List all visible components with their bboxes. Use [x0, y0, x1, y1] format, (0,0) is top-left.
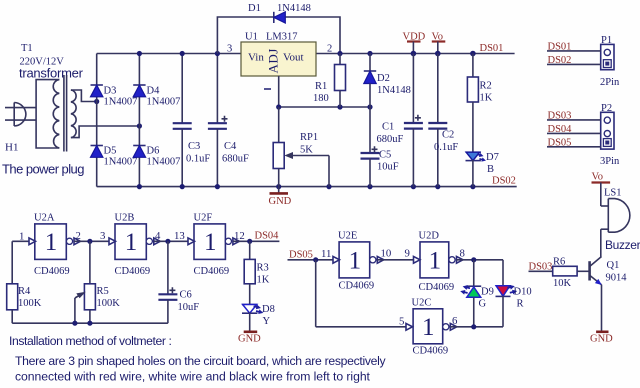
svg-text:10uF: 10uF: [377, 162, 399, 173]
svg-text:4: 4: [155, 230, 161, 242]
node: secondary top tap junction: [94, 99, 99, 104]
connector P2 3Pin: [600, 103, 620, 167]
node: rail-R1 junction: [337, 51, 342, 56]
svg-text:11: 11: [321, 248, 331, 260]
svg-text:10: 10: [381, 248, 392, 260]
svg-text:1K: 1K: [480, 93, 493, 104]
svg-text:R6: R6: [553, 257, 565, 268]
resistor R2 1K: [467, 54, 492, 153]
power Vo symbol (buzzer): [592, 172, 611, 207]
LED D9 green: [460, 260, 494, 327]
svg-text:D10: D10: [514, 287, 532, 298]
node: bottom rail / C5 junction: [367, 184, 372, 189]
resistor R3 1K: [244, 241, 270, 304]
wire: top rail right: [316, 53, 515, 55]
node: R1 bottom junction: [337, 104, 342, 109]
svg-text:R5: R5: [97, 286, 109, 297]
svg-text:1N4148: 1N4148: [277, 3, 311, 14]
svg-text:C1: C1: [382, 122, 394, 133]
node: bottom rail / C3 junction: [180, 184, 185, 189]
svg-text:CD4069: CD4069: [115, 266, 151, 277]
svg-text:DS01: DS01: [480, 43, 504, 54]
svg-text:H1: H1: [5, 142, 18, 154]
svg-text:12: 12: [234, 230, 245, 242]
svg-text:1N4007: 1N4007: [147, 157, 181, 168]
svg-text:connected with red wire, white: connected with red wire, white wire and …: [15, 370, 371, 384]
diode D2 1N4148: [364, 54, 411, 108]
power Vo symbol: [432, 32, 446, 54]
wire: bridge right vertical: [138, 54, 140, 187]
wire: bridge left vertical: [96, 54, 98, 187]
svg-text:R: R: [517, 299, 524, 310]
wire: U2F out / DS04: [233, 230, 280, 242]
svg-text:DS05: DS05: [289, 250, 313, 261]
svg-text:U2F: U2F: [194, 213, 213, 224]
potentiometer RP1 5K: [273, 107, 329, 187]
svg-text:680uF: 680uF: [222, 154, 249, 165]
inverter U2F CD4069: [188, 213, 239, 278]
capacitor C6 10uF: [158, 241, 199, 323]
svg-text:1: 1: [45, 229, 58, 256]
svg-text:R4: R4: [18, 286, 31, 297]
net label DS02 (P1): [547, 55, 601, 66]
svg-text:D5: D5: [104, 146, 117, 157]
resistor R1 180: [313, 54, 346, 108]
node: DS05 junction: [313, 257, 318, 262]
svg-text:13: 13: [174, 230, 185, 242]
node: rail-C3 junction: [180, 51, 185, 56]
svg-text:10K: 10K: [553, 278, 572, 289]
node: rail-C4-D1 junction: [215, 51, 220, 56]
node: D9 bottom junction: [471, 324, 476, 329]
svg-text:1N4007: 1N4007: [104, 97, 138, 108]
capacitor C3 0.1uF: [173, 54, 211, 187]
LED D10 red: [496, 260, 532, 327]
svg-text:D6: D6: [147, 146, 160, 157]
svg-text:The power plug: The power plug: [2, 162, 84, 177]
potentiometer R5 100K: [75, 241, 120, 323]
svg-text:1: 1: [349, 247, 362, 274]
svg-text:D7: D7: [486, 152, 499, 163]
svg-text:LM317: LM317: [266, 32, 298, 43]
wire: U2A input and left vertical: [12, 231, 29, 284]
node: rail-D2 junction: [367, 51, 372, 56]
svg-text:T1: T1: [21, 43, 33, 54]
svg-text:RP1: RP1: [300, 132, 318, 143]
node: rail-bridge-right junction: [137, 51, 142, 56]
svg-text:CD4069: CD4069: [339, 281, 375, 292]
LED D8 yellow: [242, 304, 275, 332]
net label DS03 (P2): [547, 111, 601, 122]
svg-text:C3: C3: [188, 141, 200, 152]
node: C6 top junction: [165, 239, 170, 244]
svg-text:D9: D9: [481, 287, 494, 298]
svg-text:6: 6: [452, 315, 458, 327]
op-amp U1 LM317 regulator: [227, 32, 332, 77]
diode D4 1N4007: [133, 85, 180, 108]
svg-text:9014: 9014: [606, 273, 628, 284]
node: bottom rail / wiper return junction: [326, 184, 331, 189]
ground GND (D8): [238, 332, 261, 345]
capacitor C2 0.1uF: [428, 54, 458, 187]
svg-text:1: 1: [204, 229, 217, 256]
svg-text:180: 180: [313, 93, 329, 104]
wire: U2A out to U2B in: [74, 230, 109, 242]
svg-text:D3: D3: [104, 86, 117, 97]
svg-text:1N4007: 1N4007: [147, 97, 181, 108]
svg-text:1: 1: [125, 229, 138, 256]
svg-text:0.1uF: 0.1uF: [434, 142, 458, 153]
inverter U2C CD4069: [406, 298, 457, 357]
node: secondary bottom tap junction: [137, 123, 142, 128]
svg-text:B: B: [487, 164, 494, 175]
svg-text:9: 9: [405, 248, 410, 260]
svg-text:DS04: DS04: [255, 231, 280, 242]
svg-text:100K: 100K: [97, 298, 121, 309]
svg-text:R3: R3: [257, 263, 269, 274]
inverter U2A CD4069: [29, 213, 81, 278]
node: R5 bottom junction: [87, 321, 92, 326]
svg-text:GND: GND: [269, 196, 292, 207]
svg-text:680uF: 680uF: [377, 134, 404, 145]
svg-text:U2B: U2B: [115, 213, 135, 224]
svg-text:C6: C6: [180, 290, 192, 301]
svg-text:DS02: DS02: [492, 176, 516, 187]
svg-text:1: 1: [19, 231, 24, 243]
ground GND (Q1): [590, 332, 613, 345]
svg-text:1: 1: [429, 247, 442, 274]
svg-text:GND: GND: [590, 334, 613, 345]
svg-text:D1: D1: [248, 3, 261, 14]
node: ADJ junction: [276, 104, 281, 109]
svg-text:10uF: 10uF: [178, 302, 200, 313]
svg-text:3Pin: 3Pin: [600, 156, 620, 167]
inverter U2E CD4069: [333, 231, 384, 292]
svg-text:1N4007: 1N4007: [104, 157, 138, 168]
svg-text:1K: 1K: [257, 275, 270, 286]
node: D9 top junction: [471, 257, 476, 262]
node: bottom rail / D7 junction: [470, 184, 475, 189]
svg-text:2: 2: [76, 230, 81, 242]
svg-text:U2C: U2C: [412, 298, 432, 309]
node: rail-R2 junction: [470, 51, 476, 57]
transistor Q1 9014: [590, 257, 628, 332]
svg-text:100K: 100K: [18, 298, 42, 309]
svg-text:D2: D2: [377, 73, 390, 84]
net label DS05 (U2E): [288, 248, 334, 261]
power plug H1: [2, 103, 84, 177]
inverter U2B CD4069: [109, 213, 160, 278]
svg-text:1N4148: 1N4148: [377, 85, 411, 96]
capacitor C4 680uF: [208, 54, 249, 187]
svg-text:CD4069: CD4069: [419, 282, 455, 293]
net label DS05 (P2): [547, 137, 601, 148]
svg-text:2Pin: 2Pin: [600, 77, 620, 88]
wire: top rail left: [97, 53, 241, 55]
svg-text:2: 2: [327, 44, 332, 55]
node: R3 top junction: [247, 239, 252, 244]
diode D3 1N4007: [91, 85, 138, 108]
node: bottom rail / C1 junction: [411, 184, 416, 189]
svg-text:R1: R1: [315, 81, 327, 92]
svg-text:G: G: [479, 299, 487, 310]
wire: DS05 branch to U2C: [316, 260, 406, 328]
node: bottom rail / RP1-GND junction: [276, 184, 281, 189]
svg-text:R2: R2: [480, 81, 492, 92]
diode D1 1N4148: [217, 3, 340, 54]
svg-text:C2: C2: [442, 130, 454, 141]
wire: ADJ pin net: [264, 76, 370, 107]
svg-text:Buzzer: Buzzer: [605, 238, 640, 252]
svg-text:3: 3: [100, 230, 105, 242]
net label DS04 (P2): [547, 124, 601, 135]
diode D5 1N4007: [91, 146, 138, 168]
capacitor C5 10uF: [361, 107, 399, 187]
svg-text:CD4069: CD4069: [34, 266, 70, 277]
svg-text:D4: D4: [147, 86, 161, 97]
svg-text:GND: GND: [238, 334, 261, 345]
wire: bottom rail: [97, 186, 517, 188]
svg-text:C4: C4: [224, 141, 237, 152]
wire: oscillator bottom return: [12, 322, 168, 324]
svg-text:8: 8: [460, 248, 465, 260]
node: rail-VDD-C1 junction: [411, 51, 417, 57]
svg-text:Y: Y: [263, 316, 271, 327]
svg-text:Vout: Vout: [283, 52, 304, 64]
svg-text:Q1: Q1: [607, 260, 620, 271]
inverter U2D CD4069: [414, 231, 464, 294]
node: D2 bottom junction: [367, 104, 372, 109]
svg-text:3: 3: [227, 44, 232, 55]
svg-text:CD4069: CD4069: [194, 266, 230, 277]
svg-text:5: 5: [399, 316, 404, 328]
node: bottom rail / C2 junction: [435, 184, 440, 189]
svg-text:Vin: Vin: [248, 52, 264, 64]
wire: U2D out (pin 8) to LEDs: [457, 248, 504, 260]
svg-text:Vo: Vo: [592, 172, 603, 183]
wire: U2C out (pin 6) to LEDs bottom: [450, 315, 503, 327]
wire: U2B out to U2F in: [154, 230, 188, 242]
resistor R6 10K: [529, 257, 589, 290]
svg-text:1: 1: [422, 314, 435, 341]
LED D7 blue: [466, 152, 499, 187]
connector P1 2Pin: [600, 35, 620, 88]
svg-text:ADJ: ADJ: [266, 48, 281, 73]
svg-text:U2A: U2A: [34, 213, 55, 224]
node: wiper return junction: [72, 321, 77, 326]
net label DS01 (P1): [547, 42, 601, 53]
node: R5 top junction: [87, 239, 92, 244]
svg-text:U2E: U2E: [338, 231, 357, 242]
resistor R4 100K: [7, 284, 42, 323]
node: bottom rail / bridge right junction: [137, 184, 142, 189]
capacitor C1 680uF: [377, 54, 423, 187]
svg-text:U1: U1: [245, 32, 258, 43]
svg-text:LS1: LS1: [604, 188, 622, 199]
power VDD symbol: [403, 32, 426, 54]
svg-text:D8: D8: [262, 304, 275, 315]
svg-text:transformer: transformer: [19, 66, 84, 81]
ground GND (main): [269, 187, 292, 207]
node: rail-Vo-C2 junction: [435, 51, 441, 57]
svg-text:0.1uF: 0.1uF: [186, 154, 210, 165]
svg-text:C5: C5: [379, 150, 391, 161]
transformer T1: [19, 43, 139, 152]
node: bottom rail / C4 junction: [215, 184, 220, 189]
svg-text:U2D: U2D: [419, 231, 440, 242]
wire: U2E out to U2D in: [377, 248, 413, 260]
svg-text:5K: 5K: [300, 145, 313, 156]
buzzer LS1: [601, 188, 640, 257]
svg-text:Installation method of voltmet: Installation method of voltmeter :: [9, 334, 172, 348]
svg-text:CD4069: CD4069: [413, 346, 449, 357]
diode D6 1N4007: [133, 146, 180, 168]
svg-text:There are 3 pin shaped holes o: There are 3 pin shaped holes on the circ…: [15, 354, 387, 368]
